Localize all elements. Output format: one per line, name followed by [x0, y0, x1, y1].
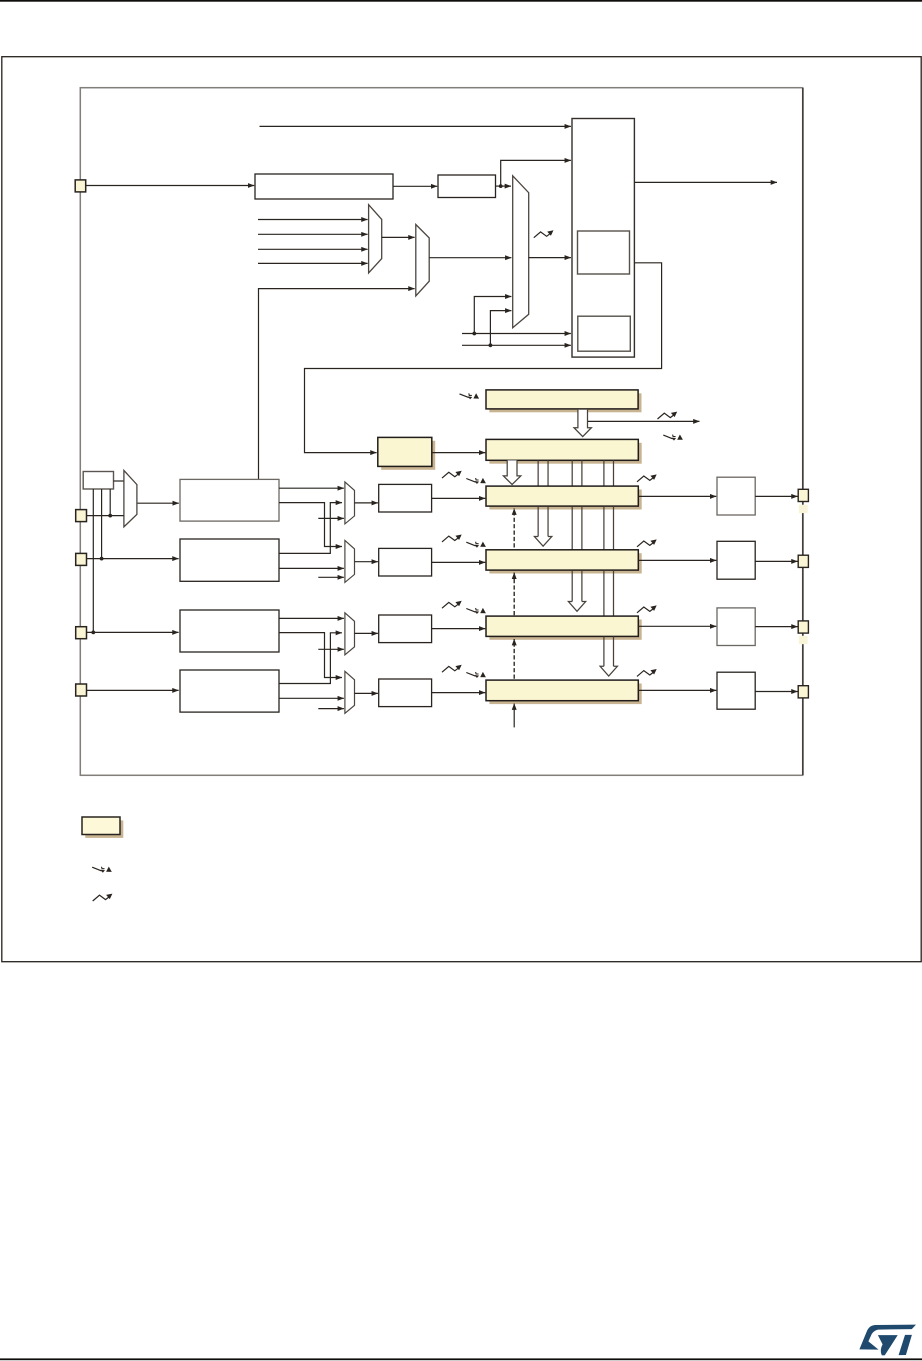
icon CCR4 event right — [637, 669, 657, 676]
pin TIMx_CH1 output — [798, 489, 808, 501]
hollow shaft CCR1 to CCR2 lower — [534, 506, 551, 546]
box capture/compare register 1 — [486, 486, 638, 506]
wire TIMx_CH1 input — [86, 515, 124, 517]
pin TIMx_CH2 — [76, 553, 87, 565]
wire IC3PS to CCR3 — [432, 628, 486, 630]
pin TIMx_CH2 output — [798, 555, 808, 567]
box slave mode controller — [578, 231, 630, 274]
hollow arrow CNT compare to CCR1 — [503, 460, 520, 484]
ghost pad below pin3 — [799, 636, 808, 644]
wire TI2FP2 to controller — [462, 344, 571, 346]
hollow arrow ARR to CNT — [574, 410, 591, 437]
wire IC1 to prescaler — [355, 502, 378, 504]
box trigger controller — [572, 119, 634, 358]
box CCR1 shadow — [489, 490, 641, 510]
wire OC1 to pin — [755, 495, 797, 497]
box capture/compare register 4 — [486, 680, 638, 701]
wire IC4 to prescaler — [355, 692, 378, 694]
icon CCR2 event right — [637, 539, 657, 546]
box output control 4 — [717, 672, 755, 709]
box IC1 prescaler — [379, 484, 432, 512]
hollow shaft to CCR3 upper — [572, 460, 582, 486]
box input filter TI4 — [180, 670, 279, 712]
wire IC3 to prescaler — [355, 632, 378, 634]
hollow shaft to CCR4 upper — [604, 460, 614, 486]
icon CCR1 interrupt left — [466, 478, 486, 484]
wire OC2 to pin — [755, 560, 797, 562]
capture arrow CCR4 — [513, 704, 515, 728]
wire TI3FP3 to IC3 mux — [279, 617, 344, 619]
ST logo — [859, 1325, 916, 1356]
wire ITR3 — [258, 262, 368, 264]
box auto-reload register — [486, 390, 638, 409]
wire TIMx_CH2 input — [86, 558, 179, 560]
legend event icon — [93, 894, 113, 901]
box output control 3 — [717, 608, 755, 646]
pin TIMx_CH1 — [76, 510, 87, 522]
mux TRGI select — [416, 225, 429, 296]
legend register box shadow — [85, 820, 123, 838]
wire ITR2 — [258, 248, 368, 250]
ghost pad below pin1 — [799, 505, 808, 513]
junction ETRF branch — [499, 184, 503, 188]
wire TI1FP1 to controller — [462, 333, 571, 335]
pin TIMx_ETR — [75, 180, 86, 192]
wire TRC to IC3 mux — [318, 648, 344, 650]
timer boundary frame — [80, 88, 802, 776]
wire CK_INT internal clock — [260, 125, 571, 127]
pin TIMx_CH3 — [76, 627, 87, 639]
wire TRC to IC2 mux — [318, 576, 344, 578]
legend register box — [82, 817, 120, 835]
wire ETR pin to polarity box — [86, 185, 254, 187]
wire ITR mux to TRGI mux — [382, 236, 415, 238]
wire ETRF to trigger mux — [496, 185, 512, 187]
box prescaler PSC — [378, 437, 432, 466]
wire TI2FP2 to IC2 mux — [279, 567, 344, 569]
wire OC1REF — [638, 495, 716, 497]
wire TIMx_CH3 input — [86, 631, 179, 633]
wire OC4REF — [638, 689, 716, 691]
box input filter TI1 — [180, 479, 279, 521]
box IC4 prescaler — [379, 679, 432, 707]
dashed capture arrow CCR1 — [513, 509, 515, 548]
box IC3 prescaler — [379, 615, 432, 643]
hollow shaft C gap1 — [604, 506, 614, 549]
wire polarity box to ETR prescaler — [393, 185, 437, 187]
pin TIMx_CH4 — [76, 684, 87, 696]
icon CCR4 interrupt left — [466, 672, 486, 678]
wire XOR tap CH2 — [101, 489, 103, 559]
hollow shaft B gap1 — [572, 506, 582, 549]
box XOR — [83, 472, 113, 490]
wire TI3FP4 crossover down — [279, 633, 342, 678]
wire OC4 to pin — [755, 691, 797, 693]
icon ARR interrupt — [460, 393, 480, 399]
wire ITR1 — [258, 233, 368, 235]
box CCR3 shadow — [489, 620, 641, 640]
wire TRC to IC4 mux — [318, 708, 344, 710]
wire TIMx_CH4 input — [86, 689, 179, 691]
junction CH1 tap — [108, 514, 112, 518]
icon CCR3 event left — [442, 601, 462, 608]
box ETR polarity/edge detector — [255, 174, 393, 199]
wire OC3REF — [638, 625, 716, 627]
wire OC3 to pin — [755, 626, 797, 628]
wire XOR to TI1 mux — [114, 480, 124, 482]
wire XOR tap CH3 — [92, 489, 94, 632]
icon UEV event — [658, 412, 678, 419]
header rule — [0, 0, 922, 2]
wire slave mux to controller — [529, 257, 571, 259]
junction TI1FP1 — [472, 332, 476, 336]
wire CK_PSC path to prescaler — [305, 263, 662, 453]
wire TI2FP1 crossover up — [279, 503, 342, 554]
wire ITR0 — [258, 219, 368, 221]
icon CCR3 event right — [637, 605, 657, 612]
junction CH2 tap — [100, 557, 104, 561]
box IC2 prescaler — [379, 548, 432, 576]
icon CCR1 event left — [442, 471, 462, 478]
timer frame right edge dark — [802, 88, 804, 775]
box auto-reload register shadow — [489, 393, 641, 412]
icon TRGI event — [534, 230, 554, 237]
box capture/compare register 2 — [486, 550, 638, 570]
mux IC4 select — [345, 671, 355, 713]
box CCR2 shadow — [489, 553, 641, 573]
figure frame — [2, 57, 921, 962]
dashed capture arrow CCR3 — [513, 639, 515, 679]
icon UEV interrupt — [663, 435, 683, 441]
wire TI1 mux to input filter — [138, 502, 179, 504]
wire TI1FP1 to IC1 mux — [279, 487, 344, 489]
wire CK_CNT — [432, 452, 486, 454]
box counter CNT — [486, 439, 638, 460]
icon CCR4 event left — [442, 665, 462, 672]
wire TI1FP2 crossover down — [279, 503, 342, 547]
wire TRGI mux to slave mux — [429, 257, 511, 259]
wire UEV out — [588, 420, 700, 422]
icon CCR2 event left — [442, 535, 462, 542]
box output control 1 — [717, 477, 755, 515]
wire ETRF branch to controller — [501, 160, 571, 186]
wire IC1PS to CCR1 — [432, 497, 486, 499]
pin TIMx_CH4 output — [798, 686, 808, 698]
box input filter TI3 — [180, 610, 279, 652]
hollow shaft CCR2 to CCR3 lower — [568, 570, 585, 611]
box prescaler PSC shadow — [381, 441, 435, 470]
wire XOR tap CH1 — [109, 489, 111, 516]
wire IC4PS to CCR4 — [432, 692, 486, 694]
dashed capture arrow CCR2 — [513, 573, 515, 616]
icon CCR3 interrupt left — [466, 608, 486, 614]
wire TI1FP1 stub to slave mux — [474, 297, 511, 334]
wire TI1F_ED to TRGI mux — [259, 289, 415, 479]
footer rule — [0, 1358, 922, 1360]
hollow shaft C gap2 — [604, 570, 614, 616]
hollow shaft to CCR2 upper — [538, 460, 548, 486]
box CCR4 shadow — [489, 684, 641, 705]
mux ITR select — [369, 205, 382, 273]
wire TI4FP4 to IC4 mux — [279, 697, 344, 699]
wire TRC to IC1 mux — [318, 517, 344, 519]
legend interrupt icon — [92, 867, 112, 873]
mux slave mode — [513, 176, 529, 328]
wire IC2 to prescaler — [355, 561, 378, 563]
wire TI2FP2 stub to slave mux — [490, 311, 511, 346]
box encoder interface — [578, 316, 631, 351]
mux IC3 select — [345, 613, 355, 655]
junction CH3 tap — [91, 631, 95, 635]
wire IC2PS to CCR2 — [432, 561, 486, 563]
wire TI4FP3 crossover up — [279, 633, 342, 684]
box capture/compare register 3 — [486, 616, 638, 636]
box output control 2 — [717, 541, 755, 579]
mux IC1 select — [345, 482, 355, 524]
icon CCR2 interrupt left — [466, 542, 486, 548]
box input filter TI2 — [180, 539, 279, 581]
box ETR prescaler — [438, 175, 496, 198]
icon CCR1 event right — [637, 474, 657, 481]
wire OC2REF — [638, 559, 716, 561]
pin TIMx_CH3 output — [798, 621, 808, 633]
junction TI2FP2 — [489, 343, 493, 347]
wire TRGO output — [635, 181, 778, 183]
box counter CNT shadow — [489, 443, 641, 464]
mux TI1 select — [124, 470, 137, 527]
hollow shaft CCR3 to CCR4 lower — [600, 637, 617, 677]
mux IC2 select — [345, 540, 355, 582]
